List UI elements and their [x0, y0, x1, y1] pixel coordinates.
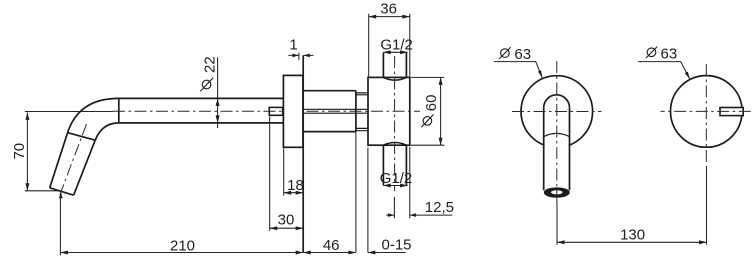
circle2 vertical centerline	[705, 64, 707, 163]
svg-text:22: 22	[201, 56, 218, 73]
spout horizontal tube	[119, 98, 284, 123]
wall front extension	[355, 132, 357, 253]
svg-text:0-15: 0-15	[381, 237, 411, 254]
dim 30	[270, 226, 304, 230]
bottom thread	[383, 143, 406, 186]
dim 70	[25, 112, 113, 191]
wall face line	[302, 55, 304, 252]
escutcheon	[283, 75, 303, 147]
dia63 label 2	[638, 45, 690, 79]
front spout joint arc	[544, 133, 570, 136]
lever handle	[720, 108, 743, 116]
front view escutcheon circle 1	[521, 76, 593, 148]
valve body	[368, 77, 410, 145]
front spout U bend	[544, 95, 570, 108]
text dia60 rotated	[421, 95, 440, 128]
text dia22 rotated	[200, 56, 218, 91]
top thread end line with G1/2 arrows	[383, 50, 407, 54]
dim 12,5	[386, 213, 452, 217]
svg-text:63: 63	[661, 45, 678, 62]
dim 130	[557, 166, 707, 245]
dia63 label 1	[494, 46, 543, 79]
dim 1	[288, 53, 313, 60]
dim diameter 22	[216, 57, 220, 128]
dim 18	[284, 149, 304, 196]
extension line 30	[269, 117, 271, 231]
svg-text:210: 210	[170, 237, 195, 254]
circle1 vertical centerline	[556, 61, 558, 205]
spout bend inner curve	[95, 123, 119, 140]
spout joint line	[68, 133, 96, 141]
svg-text:36: 36	[380, 1, 397, 18]
body front extension	[367, 148, 369, 253]
bottom thread end line with G1/2 arrows	[383, 184, 407, 188]
svg-text:1: 1	[289, 37, 297, 54]
dim 0-15	[368, 251, 406, 255]
spout outlet cut	[50, 188, 74, 195]
dim 210	[60, 194, 303, 256]
circle1 horizontal centerline	[512, 111, 602, 113]
spout angled centerline	[60, 124, 87, 195]
valve vertical centerline	[394, 56, 396, 191]
extension 12,5 left	[393, 197, 395, 219]
dim 36	[369, 14, 410, 77]
svg-text:G1/2: G1/2	[380, 36, 413, 53]
spout bend outer curve	[68, 98, 119, 132]
svg-text:46: 46	[323, 237, 340, 254]
dim diameter 60	[411, 77, 444, 145]
connector rect	[269, 107, 282, 115]
svg-text:30: 30	[278, 212, 295, 229]
extension 12,5 right	[409, 147, 411, 218]
front spout tube white fill	[545, 106, 569, 187]
circle2 horizontal centerline	[661, 110, 751, 112]
front view escutcheon circle 2	[671, 76, 743, 148]
top thread	[383, 53, 406, 80]
svg-text:70: 70	[11, 143, 28, 160]
dim 46	[303, 251, 356, 255]
hub	[303, 91, 356, 132]
front outlet ring	[545, 188, 569, 197]
svg-text:63: 63	[514, 46, 531, 63]
spout tip arrow	[59, 191, 63, 198]
svg-text:G1/2: G1/2	[380, 170, 413, 187]
neck lines	[356, 93, 368, 131]
svg-text:130: 130	[620, 226, 645, 243]
pipe lines	[303, 109, 368, 113]
svg-text:12,5: 12,5	[425, 199, 454, 216]
front spout tube edges	[544, 108, 570, 191]
svg-text:18: 18	[287, 177, 304, 194]
spout angled tube	[50, 133, 95, 196]
spout horizontal centerline	[113, 110, 420, 112]
svg-text:60: 60	[423, 95, 440, 112]
